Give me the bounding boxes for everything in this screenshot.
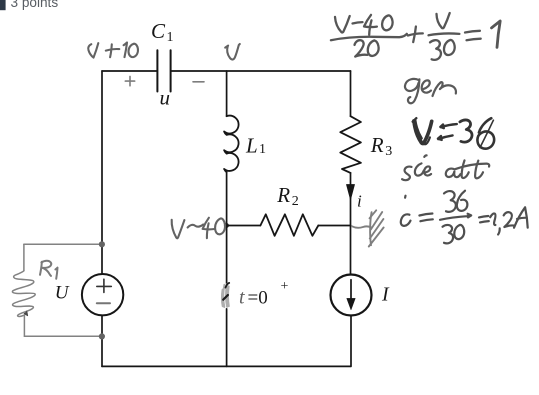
plus sign of capacitor	[125, 76, 134, 85]
handwritten label R1	[40, 261, 58, 279]
svg-text:1: 1	[259, 142, 266, 157]
wire: R2 left lead	[227, 225, 261, 227]
handwritten node label V-40	[172, 220, 185, 239]
R1 left wire upper	[23, 244, 25, 270]
handwritten R1 branch	[12, 244, 99, 336]
wire: right vertical from top corner to R3	[350, 71, 352, 116]
handwritten V = 36	[413, 118, 494, 148]
minus sign of capacitor	[193, 81, 204, 83]
svg-text:I: I	[381, 284, 390, 306]
svg-text:2: 2	[292, 194, 299, 209]
resistor R3	[340, 116, 361, 173]
wire: right vertical from R3 down to bottom	[350, 173, 352, 275]
handwritten word ger	[405, 79, 456, 103]
svg-text:=0: =0	[248, 288, 268, 309]
wire: bottom horizontal	[102, 365, 351, 367]
R1 top wire	[24, 243, 100, 245]
wire: left vertical below source to bottom corner	[101, 315, 103, 366]
current source I circle	[331, 275, 372, 316]
svg-text:t: t	[239, 287, 245, 309]
svg-text:i: i	[357, 191, 362, 210]
svg-text:3: 3	[385, 144, 392, 159]
header block	[0, 0, 58, 10]
junction node dot V-40	[224, 223, 229, 228]
inductor L1	[224, 116, 238, 173]
switch scribble (grey pencil)	[222, 284, 229, 307]
handwritten annotations group	[88, 43, 240, 239]
wire: right vertical below source	[350, 316, 352, 367]
plus sign in source	[97, 279, 112, 292]
grey node dot bottom	[99, 333, 105, 339]
minus sign in source	[97, 302, 110, 304]
grey node dot top	[99, 241, 105, 247]
svg-text:R: R	[370, 133, 384, 157]
wire: middle vertical from switch to bottom	[226, 309, 228, 367]
svg-text:C: C	[151, 19, 166, 43]
handwritten V+10 label	[88, 43, 98, 58]
handwritten sa att	[402, 155, 489, 180]
voltage source U circle	[82, 274, 123, 315]
R1 resistor squiggle	[12, 271, 35, 317]
handwritten node label V	[225, 46, 228, 48]
R1 squiggle arrow tick	[24, 311, 27, 315]
handwritten hatch at R2-right junction	[352, 210, 384, 246]
svg-text:U: U	[55, 283, 70, 304]
wire: left vertical from top corner down to voltage source	[101, 71, 103, 274]
svg-text:+: +	[281, 279, 289, 294]
handwritten i = 36/30 = 1,2A	[401, 191, 528, 244]
wire: middle vertical from L1 to switch	[226, 172, 228, 283]
svg-text:L: L	[245, 134, 258, 158]
handwritten equation (V-40)/20 + V/30 = 1	[331, 13, 500, 60]
wire: top right segment from capacitor to top-right corner	[171, 70, 350, 72]
svg-text:R: R	[276, 183, 290, 207]
svg-text:u: u	[160, 86, 171, 110]
R1 left wire lower	[23, 316, 25, 336]
svg-text:1: 1	[167, 30, 174, 45]
wire: R2 right lead	[318, 225, 350, 227]
current source arrow	[350, 280, 352, 299]
R1 bottom wire	[24, 335, 99, 337]
wire: middle vertical top (node V down to L1)	[226, 71, 228, 116]
wire: top left segment from left corner to capacitor	[102, 70, 157, 72]
svg-text:3 points: 3 points	[11, 0, 59, 10]
resistor R2	[260, 214, 318, 236]
capacitor C1 plates	[157, 50, 170, 91]
switch blade marks (black)	[223, 295, 228, 300]
current arrow i on right wire	[347, 185, 355, 200]
